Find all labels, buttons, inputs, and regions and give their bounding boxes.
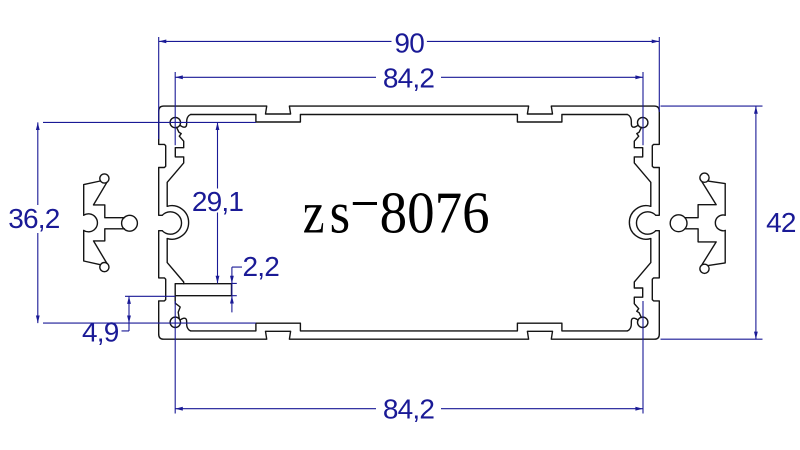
bottom-left screw port circle — [170, 317, 180, 327]
bottom inner surface with bosses — [191, 323, 627, 331]
arrow 84,2 bottom left — [175, 407, 183, 411]
top-right wall zigzag — [634, 127, 651, 206]
dim 29,1 lines — [217, 122, 219, 283]
bottom-right screw port circle — [638, 317, 648, 327]
dim 84,2 top lines — [175, 72, 643, 145]
svg-text:42: 42 — [766, 207, 796, 238]
bottom-right wall zigzag — [634, 239, 651, 318]
right clip top knob — [700, 173, 709, 182]
svg-text:84,2: 84,2 — [383, 393, 435, 424]
top-left wall zigzag — [167, 127, 184, 206]
bottom-right S-wave to inner lip — [627, 318, 638, 331]
outer right edge upper with notch and slot lip — [652, 111, 659, 215]
outer bottom edge with grooves — [159, 331, 660, 339]
left screw channel C arc — [162, 212, 181, 234]
dim 42 lines — [661, 106, 763, 339]
left clip middle notch — [84, 214, 98, 232]
left clip bottom knob — [100, 263, 109, 272]
PCB slot bar — [175, 284, 231, 296]
arrow 84,2 top right — [635, 75, 643, 79]
svg-text:36,2: 36,2 — [8, 203, 60, 234]
arrow 4,9 up — [127, 296, 131, 304]
svg-text:s: s — [330, 180, 351, 246]
arrow 4,9 down — [127, 316, 131, 324]
svg-text:8076: 8076 — [380, 180, 490, 246]
arrow 2,2 down — [230, 276, 234, 284]
outer left edge upper with notch and slot lip — [159, 111, 166, 215]
arrow 42 down — [754, 332, 758, 340]
outer left edge lower with notch and slot lip — [159, 231, 166, 335]
arrow 29,1 up — [216, 122, 220, 130]
arrow 42 up — [754, 106, 758, 114]
right screw channel C arc — [636, 212, 655, 234]
top-right S-wave to inner lip — [627, 115, 638, 128]
dim 4,9 lines — [122, 296, 176, 331]
outer right edge lower with notch and slot lip — [652, 231, 659, 335]
dim 84,2 bottom lines — [175, 301, 643, 414]
left screw channel outer bulge — [167, 206, 188, 240]
left clip body — [84, 181, 125, 265]
arrow 2,2 up — [230, 296, 234, 304]
dim 90 lines — [159, 37, 660, 139]
arrow 36,2 down — [36, 316, 40, 324]
right screw channel outer bulge — [629, 206, 650, 240]
arrow 29,1 down — [216, 276, 220, 284]
right clip middle knob — [670, 215, 687, 232]
left clip top knob — [100, 174, 109, 183]
svg-text:z: z — [303, 180, 325, 246]
bottom-left wall wiggle below bar — [175, 296, 180, 319]
top inner surface with bosses — [191, 115, 627, 123]
dim 2,2 lines — [232, 267, 243, 312]
svg-text:4,9: 4,9 — [82, 317, 119, 348]
arrow 90 left — [159, 40, 167, 44]
title dash — [353, 202, 377, 205]
right clip bottom knob — [700, 264, 709, 273]
arrow 84,2 top left — [175, 75, 183, 79]
svg-text:84,2: 84,2 — [383, 63, 435, 94]
top-left screw port circle — [170, 117, 180, 127]
svg-text:90: 90 — [394, 27, 424, 58]
arrow 36,2 up — [36, 122, 40, 130]
arrow 90 right — [652, 40, 660, 44]
top-right screw port circle — [638, 117, 648, 127]
outer top edge with grooves — [159, 106, 660, 114]
bottom-left S-wave to inner lip — [180, 318, 191, 331]
bottom-left wall slant to bar — [167, 239, 184, 284]
top-left S-wave to inner lip — [180, 115, 191, 128]
svg-text:29,1: 29,1 — [192, 186, 244, 217]
arrow 84,2 bottom right — [635, 407, 643, 411]
right clip middle notch — [715, 215, 725, 231]
right clip body — [685, 181, 725, 265]
dim 36,2 lines — [38, 122, 256, 323]
left clip middle knob — [122, 215, 138, 231]
svg-text:2,2: 2,2 — [243, 251, 280, 282]
